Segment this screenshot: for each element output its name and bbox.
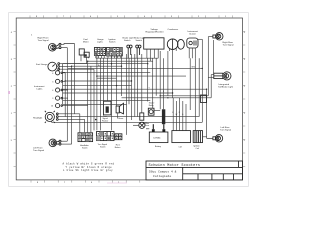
wire bbox=[60, 63, 87, 65]
connector cell letters bbox=[79, 49, 121, 141]
title block bbox=[146, 161, 243, 180]
indicator lamp 1 bbox=[56, 71, 63, 75]
wire bbox=[63, 105, 88, 107]
svg-text:Meter: Meter bbox=[83, 40, 89, 43]
main fuse bbox=[139, 122, 145, 128]
wire bus: left verticals bbox=[62, 64, 64, 105]
wire vertical bbox=[207, 37, 209, 96]
wire vertical bbox=[207, 89, 213, 138]
indicator lamp 4 bbox=[56, 96, 63, 100]
ignition switch connector bbox=[107, 48, 123, 56]
fuse holder bbox=[140, 113, 144, 120]
zone ticks left bbox=[14, 32, 17, 167]
svg-text:Intergrated: Intergrated bbox=[219, 83, 230, 86]
lamp right rear turn signal bbox=[213, 33, 223, 40]
svg-text:4: 4 bbox=[52, 73, 53, 75]
svg-text:Fuel Gauge: Fuel Gauge bbox=[36, 64, 48, 66]
brake light switch front bbox=[127, 45, 132, 58]
zone ticks top bbox=[30, 15, 233, 18]
wire bbox=[58, 113, 80, 115]
wire vertical bbox=[210, 75, 212, 98]
svg-text:Right Rear: Right Rear bbox=[223, 41, 234, 44]
lamp left front turn signal bbox=[49, 139, 61, 147]
svg-text:Lights: Lights bbox=[37, 88, 44, 91]
wire bbox=[207, 137, 213, 139]
wire pins bbox=[108, 56, 121, 58]
svg-text:Instrument: Instrument bbox=[34, 85, 45, 88]
junction dots bbox=[65, 61, 208, 121]
svg-text:Condenser: Condenser bbox=[168, 28, 179, 31]
svg-text:Switch: Switch bbox=[136, 39, 143, 42]
indicator lamp 3 bbox=[56, 88, 63, 92]
svg-text:12V/4Ah: 12V/4Ah bbox=[153, 137, 160, 140]
wire bbox=[163, 58, 165, 109]
handlebar switch connector bbox=[78, 133, 93, 142]
svg-text:Voltage: Voltage bbox=[151, 28, 159, 31]
svg-text:Horn: Horn bbox=[119, 117, 125, 120]
svg-text:Tail/Brake Light: Tail/Brake Light bbox=[218, 86, 233, 89]
svg-text:Brake Light: Brake Light bbox=[123, 37, 134, 40]
zone numbers bbox=[11, 16, 246, 184]
svg-text:CDI: CDI bbox=[179, 146, 183, 148]
wire bbox=[61, 47, 67, 49]
magneto bbox=[167, 39, 184, 50]
svg-text:Turn Signal: Turn Signal bbox=[220, 129, 232, 132]
wire bbox=[63, 89, 69, 91]
wire bbox=[203, 136, 207, 138]
wire pins bbox=[169, 48, 176, 52]
svg-text:Ignition: Ignition bbox=[109, 38, 117, 41]
voltage regulator bbox=[144, 38, 164, 49]
svg-text:50cc Campus 4 &: 50cc Campus 4 & bbox=[149, 170, 177, 173]
svg-text:Cluster: Cluster bbox=[189, 32, 196, 35]
wire bbox=[63, 80, 66, 82]
battery cables bbox=[152, 124, 154, 129]
wire bbox=[211, 74, 214, 76]
svg-text:Instrument: Instrument bbox=[188, 30, 199, 33]
indicator lamp 5 bbox=[56, 104, 63, 108]
wire vertical bbox=[74, 44, 76, 114]
svg-text:Collegiate: Collegiate bbox=[153, 174, 172, 178]
wire bbox=[63, 97, 69, 99]
wire pins bbox=[96, 56, 104, 59]
svg-text:Switch: Switch bbox=[82, 147, 88, 150]
wire bbox=[61, 140, 67, 142]
wire bbox=[198, 38, 202, 40]
svg-text:W/G: W/G bbox=[192, 67, 196, 69]
svg-text:Left Rear: Left Rear bbox=[221, 126, 230, 129]
battery terminals bbox=[152, 129, 155, 132]
svg-text:Turn Signal: Turn Signal bbox=[223, 44, 235, 47]
page edge bbox=[9, 13, 249, 187]
tail light bbox=[214, 72, 231, 80]
svg-text:W: W bbox=[176, 114, 178, 116]
wire bbox=[58, 118, 84, 120]
horn button connector bbox=[115, 134, 122, 140]
starter relay bbox=[148, 108, 154, 115]
border frame bbox=[16, 18, 242, 180]
wire bbox=[208, 36, 213, 38]
wire pins bbox=[189, 48, 195, 58]
svg-text:Battery: Battery bbox=[155, 145, 161, 148]
resistor bbox=[162, 109, 165, 124]
svg-text:Turn Signal: Turn Signal bbox=[33, 149, 45, 152]
lamp right front turn signal bbox=[49, 43, 62, 51]
svg-text:Left Front: Left Front bbox=[33, 146, 43, 149]
svg-text:Switch: Switch bbox=[109, 40, 116, 43]
fuel meter connector bbox=[79, 49, 89, 57]
wire vertical bbox=[212, 40, 214, 73]
wire bbox=[52, 121, 203, 124]
svg-text:Right Front: Right Front bbox=[38, 37, 49, 40]
lamp left rear turn signal bbox=[213, 135, 223, 142]
svg-text:Handlebar: Handlebar bbox=[80, 144, 89, 147]
svg-text:L: L bbox=[163, 91, 164, 93]
zone ticks right bbox=[243, 32, 246, 167]
turn signal switch connector bbox=[97, 132, 115, 141]
flasher relay bbox=[104, 101, 112, 115]
svg-text:Flasher: Flasher bbox=[102, 119, 109, 122]
svg-text:Turn Signal: Turn Signal bbox=[38, 39, 50, 42]
wire bbox=[117, 113, 119, 119]
CDI unit bbox=[172, 131, 191, 143]
fuel gauge bbox=[48, 62, 60, 71]
svg-text:3: 3 bbox=[52, 81, 53, 83]
wire bbox=[61, 143, 72, 145]
svg-text:Ignition: Ignition bbox=[194, 145, 200, 148]
instrument cluster bbox=[187, 38, 198, 48]
svg-text:10: 10 bbox=[51, 106, 53, 108]
wire bus: center verticals bbox=[96, 54, 98, 130]
svg-text:Regulator/Rectifier: Regulator/Rectifier bbox=[146, 30, 164, 33]
diode block bbox=[201, 95, 207, 103]
wire vertical bbox=[66, 48, 68, 142]
svg-text:Button: Button bbox=[115, 146, 120, 149]
wire bbox=[58, 116, 199, 118]
svg-text:Headlight: Headlight bbox=[33, 117, 43, 120]
wire bbox=[208, 76, 214, 78]
zone ticks bottom bbox=[31, 180, 140, 183]
indicator lamp 2 bbox=[56, 79, 63, 83]
svg-text:Schwinn Motor Scooters: Schwinn Motor Scooters bbox=[149, 163, 201, 168]
ignition coil bbox=[193, 131, 202, 143]
wire bbox=[63, 72, 66, 74]
wire pins bbox=[81, 55, 89, 61]
battery bbox=[149, 132, 168, 143]
CDI input wires bbox=[173, 98, 186, 131]
gauge connector bbox=[94, 48, 105, 56]
svg-text:L blue Sb light blue Gr grey: L blue Sb light blue Gr grey bbox=[63, 169, 113, 172]
scan artifact magenta bbox=[9, 91, 10, 94]
wire bbox=[61, 43, 75, 46]
svg-text:Coil: Coil bbox=[196, 148, 200, 150]
wire bbox=[60, 65, 72, 67]
svg-text:Lights: Lights bbox=[97, 40, 104, 43]
headlight bbox=[45, 111, 58, 123]
svg-text:Turn Signal: Turn Signal bbox=[98, 143, 108, 146]
svg-text:Horn: Horn bbox=[116, 144, 120, 147]
wire pins bbox=[147, 49, 158, 61]
svg-text:Fuse: Fuse bbox=[145, 125, 149, 127]
horn bbox=[116, 103, 123, 114]
wire bbox=[60, 68, 94, 70]
svg-text:3: 3 bbox=[52, 98, 53, 100]
svg-text:Switch: Switch bbox=[100, 146, 106, 149]
svg-text:4: 4 bbox=[52, 90, 53, 92]
wire runs: horizontals bbox=[96, 57, 158, 59]
svg-text:Switch: Switch bbox=[124, 39, 131, 42]
brake light switch rear bbox=[136, 45, 141, 58]
